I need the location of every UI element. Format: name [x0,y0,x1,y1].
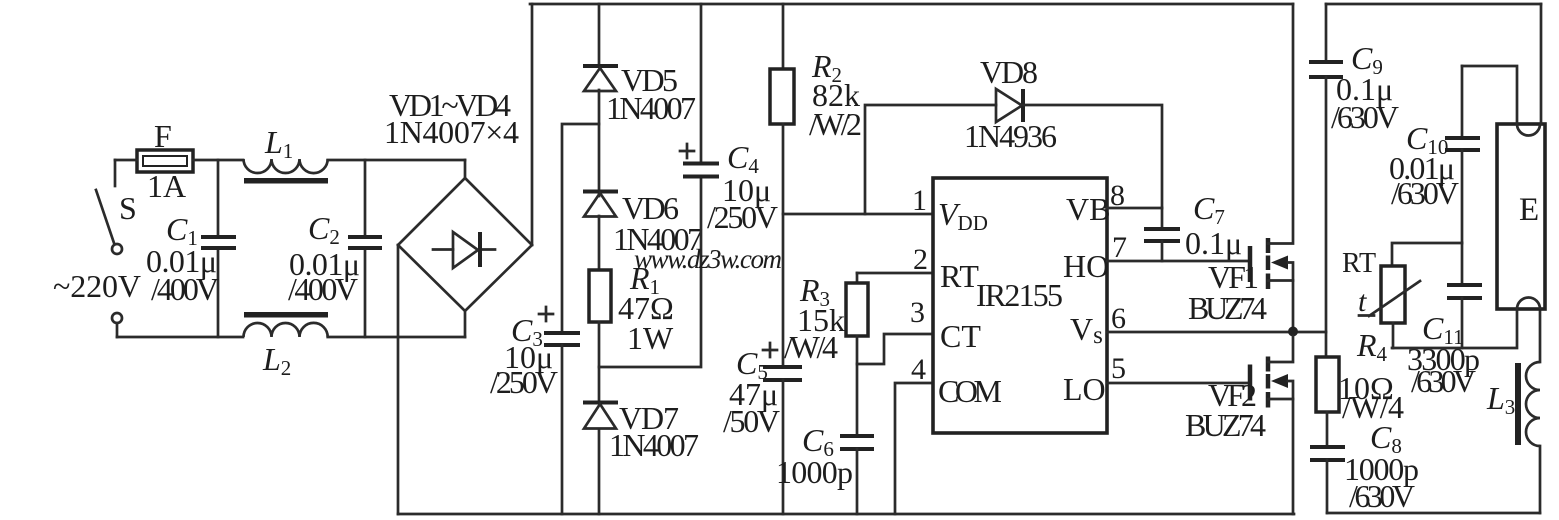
svg-text:/50V: /50V [723,403,780,439]
wire VD7 to bottom rail [598,430,601,514]
capacitor C1 [146,160,236,337]
wire R4 to C8 [1326,412,1329,447]
svg-text:1N4007: 1N4007 [606,90,696,126]
svg-text:/630V: /630V [1349,478,1415,514]
wire [328,336,465,339]
capacitor C10 0.01u/630V [1389,66,1480,243]
svg-text:1: 1 [912,184,927,217]
inductor L2 [244,312,329,380]
capacitor C7 0.1u [1144,190,1242,261]
wire bottom rail [398,513,1294,516]
wire Vs line [1107,331,1326,334]
svg-text:1N4007: 1N4007 [609,427,699,463]
resistor R2 82k [770,4,862,142]
svg-text:5: 5 [1111,352,1126,385]
svg-text:HO: HO [1063,248,1109,284]
wire CT elbow [857,334,933,364]
svg-text:7: 7 [1112,231,1127,264]
wire bridge plus to top rail [531,4,534,245]
capacitor C8 1000p/630V [1310,419,1419,514]
diode VD7 1N4007 [583,400,699,463]
svg-text:F: F [154,118,172,154]
wire R3 to C6 [856,336,859,436]
op-amp U1 IR2155 [933,178,1110,433]
wire COM elbow to bottom rail [895,383,933,514]
transistor VF2 BUZ74 [1185,336,1293,514]
svg-text:2: 2 [913,243,928,276]
svg-text:6: 6 [1111,302,1126,335]
resistor R3 15k [784,272,868,365]
wire top rail [530,3,1293,6]
capacitor C5 47u [723,343,802,514]
svg-text:/630V: /630V [1391,175,1459,211]
capacitor C3 [490,307,580,514]
wire [328,159,465,162]
switch S [96,160,137,337]
wire HO line [1107,260,1248,263]
svg-text:1N4007×4: 1N4007×4 [384,114,519,150]
svg-text:0.1μ: 0.1μ [1185,225,1242,261]
capacitor C9 0.1u/630V [1309,4,1399,357]
resistor R1 47ohm 1W [589,260,674,356]
svg-text:BUZ74: BUZ74 [1185,407,1266,443]
svg-text:RT: RT [940,258,979,294]
svg-text:VD8: VD8 [980,54,1038,90]
svg-text:www.dz3w.com: www.dz3w.com [634,244,782,274]
capacitor C11 3300p/630V [1407,243,1482,399]
wire R2 to C5 [782,124,785,367]
svg-text:t: t [1358,285,1367,318]
inductor L1 [244,124,329,184]
svg-text:/250V: /250V [490,364,558,400]
node Vs junction [1288,327,1298,337]
wire RT top elbow [1392,243,1462,266]
capacitor C4 [680,4,778,235]
svg-text:/400V: /400V [288,271,358,307]
svg-text:3: 3 [910,296,925,329]
wire lamp top-right pin to rail [1540,4,1543,124]
resistor R4 10ohm [1316,327,1404,425]
svg-text:/400V: /400V [151,271,219,307]
wire VD6 to R1 [598,216,601,270]
wire junction to C3 [562,124,599,333]
wire VD5 to VD6 [598,90,601,196]
wire lamp bottom-left pin to C11/RT [1392,309,1517,348]
svg-text:IR2155: IR2155 [976,277,1063,313]
svg-text:/630V: /630V [1331,99,1399,135]
wire bridge bottom to AC [464,311,467,337]
wire bottom AC [117,336,243,339]
wire VDD line [783,213,933,216]
svg-text:S: S [119,190,137,226]
fuse F 1A [137,118,193,204]
svg-text:BUZ74: BUZ74 [1188,290,1267,326]
wire right top rail [1326,3,1541,6]
transistor VF1 BUZ74 [1188,4,1293,331]
svg-text:VB: VB [1066,191,1110,227]
svg-text:1N4936: 1N4936 [964,118,1057,154]
svg-text:1000p: 1000p [776,454,853,490]
diode VD8 1N4936 [865,54,1162,214]
svg-text:CT: CT [940,318,981,354]
svg-text:/250V: /250V [707,199,778,235]
svg-text:1A: 1A [147,168,186,204]
wire VB line [1107,207,1162,210]
svg-text:E: E [1519,192,1539,228]
lamp E [1497,124,1545,309]
svg-text:/W/4: /W/4 [784,329,838,365]
svg-text:RT: RT [1342,248,1376,279]
svg-text:COM: COM [938,373,1002,409]
svg-text:1W: 1W [627,320,674,356]
wire bridge top to AC [464,160,467,178]
wire lamp top-left pin elbow [1462,66,1517,124]
wire R1 to VD7 [598,322,601,402]
svg-text:4: 4 [911,353,926,386]
svg-text:~220V: ~220V [53,268,141,304]
bridge rectifier VD1~VD4 [384,87,532,311]
diode VD5 1N4007 [583,4,696,126]
capacitor C6 1000p [776,422,874,514]
capacitor C2 [288,160,382,337]
wire junction to C4 bottom [599,177,701,367]
inductor L3 [1486,309,1540,513]
diode VD6 1N4007 [583,190,703,257]
svg-text:LO: LO [1063,371,1106,407]
wire top AC [115,159,243,162]
wire RT line [857,272,933,275]
svg-text:/W/2: /W/2 [809,106,862,142]
wire LO line [1107,382,1248,385]
thermistor RT [1342,248,1420,323]
wire right bottom rail [1327,512,1540,515]
wire bridge minus to bottom rail [397,245,400,514]
svg-text:/630V: /630V [1411,363,1476,399]
wire RT bottom [1392,323,1395,348]
